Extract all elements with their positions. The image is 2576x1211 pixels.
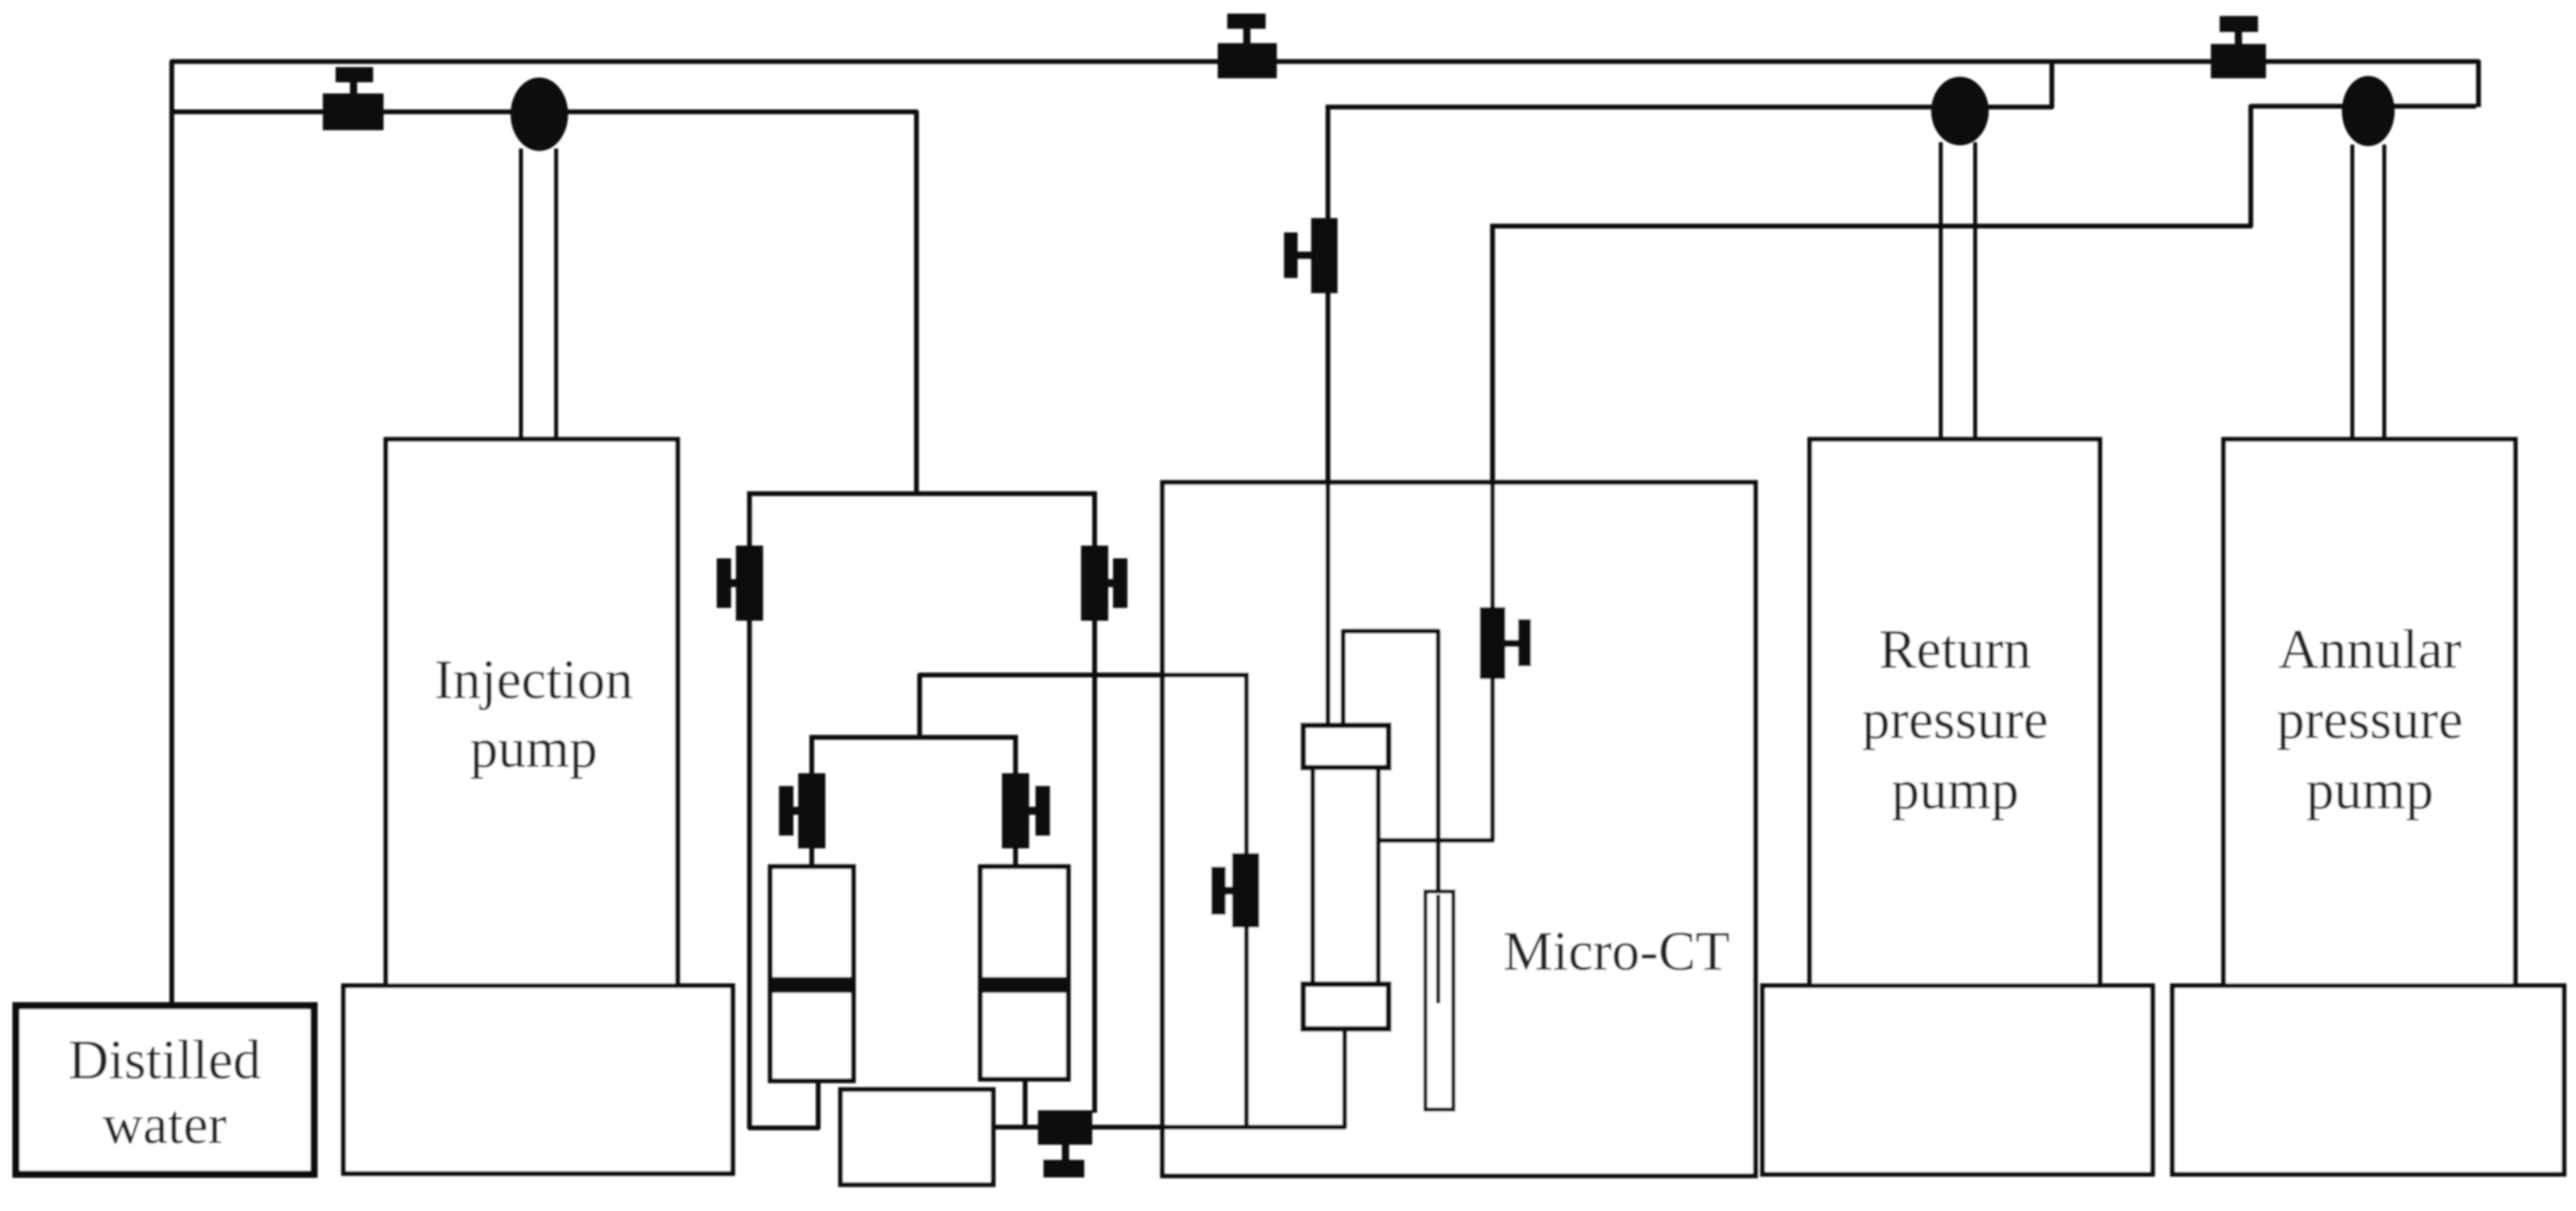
injection pump body	[386, 439, 678, 986]
junction pump connector ellipse (return)	[1931, 77, 1989, 145]
svg-text:Annular: Annular	[2278, 619, 2461, 681]
valve V9 on return line inside micro-CT	[1480, 607, 1531, 679]
sensor probe tube	[1425, 891, 1453, 1110]
svg-text:Return: Return	[1879, 619, 2032, 681]
return pump outlet pipe	[1941, 142, 1975, 442]
left accumulator	[770, 867, 853, 1081]
core holder top fitting	[1303, 725, 1389, 768]
svg-text:pump: pump	[2306, 760, 2433, 821]
junction pump connector ellipse (annular)	[2342, 76, 2395, 146]
wire: mid manifold from micro-CT area	[920, 675, 1246, 737]
accumulator base block	[841, 1090, 993, 1185]
wire: right branch down to bottom valve	[1092, 491, 1097, 1113]
svg-text:pump: pump	[470, 718, 597, 780]
label: Distilled water	[68, 1030, 260, 1156]
label: Injection pump	[435, 649, 634, 780]
injection pump outlet pipe	[521, 149, 556, 442]
wire: return line down through micro-CT to core holder side	[1378, 224, 1493, 840]
distilled water tank	[16, 1006, 314, 1174]
svg-text:pressure: pressure	[1862, 689, 2048, 751]
core holder body	[1313, 768, 1378, 984]
valve V10 on mid line	[1211, 853, 1259, 927]
valve V7 above right accumulator	[1002, 773, 1050, 848]
Micro-CT enclosure box	[1163, 482, 1755, 1176]
wire: valve line down to core holder top	[1326, 105, 1330, 725]
wire: annular junction feed	[1493, 106, 2476, 226]
svg-text:Micro-CT: Micro-CT	[1503, 921, 1730, 983]
valve V1 on distilled water line	[323, 67, 384, 130]
wire: core holder upper jog	[1343, 631, 1438, 1003]
wire: left accumulator drop	[809, 735, 814, 869]
svg-text:Distilled: Distilled	[68, 1030, 260, 1091]
label: Annular pressure pump	[2276, 619, 2463, 821]
valve V8 on core holder feed line	[1284, 218, 1338, 293]
valve V5 right of manifold assembly	[1081, 546, 1127, 621]
wire: right accumulator drop	[1013, 735, 1018, 869]
wire: accumulator header	[812, 735, 1016, 740]
valve V11 bottom drain valve	[1038, 1110, 1092, 1177]
label: Return pressure pump	[1862, 619, 2048, 821]
valve V4 left of manifold assembly	[717, 546, 763, 621]
wire: manifold top of accumulator assembly	[749, 494, 1095, 496]
annular pressure pump base	[2173, 986, 2564, 1174]
label: Micro-CT	[1503, 921, 1730, 983]
valve V3 on top manifold (right)	[2211, 16, 2266, 78]
injection pump base	[344, 986, 733, 1173]
wire: left branch down to bottom line	[749, 491, 818, 1128]
wire: mid valve line down	[1244, 673, 1249, 1127]
return pressure pump body	[1810, 439, 2100, 986]
annular pump outlet pipe	[2352, 145, 2384, 442]
right accumulator	[980, 867, 1068, 1079]
valve V2 on top manifold (middle)	[1218, 14, 1277, 78]
svg-text:water: water	[102, 1094, 226, 1156]
svg-text:pressure: pressure	[2276, 689, 2463, 751]
junction pump connector ellipse (injection)	[511, 77, 568, 151]
return pressure pump base	[1763, 986, 2153, 1174]
annular pressure pump body	[2224, 439, 2515, 986]
wire: second line right (to return pump junction)	[1328, 64, 2052, 107]
core holder bottom fitting	[1303, 984, 1389, 1029]
wire: right accumulator bottom drop	[1023, 1078, 1028, 1128]
svg-text:Injection: Injection	[435, 649, 634, 711]
svg-text:pump: pump	[1891, 760, 2018, 821]
valve V6 above left accumulator	[779, 773, 825, 848]
wire: bottom line through bottom valve to core holder bottom	[993, 1026, 1345, 1127]
wire: second line left (distilled water feed to injection junction)	[174, 112, 916, 494]
wire: top manifold line	[172, 62, 2479, 1008]
